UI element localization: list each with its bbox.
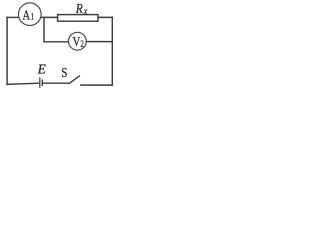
svg-text:S: S <box>61 65 67 80</box>
svg-text:E: E <box>37 61 47 76</box>
